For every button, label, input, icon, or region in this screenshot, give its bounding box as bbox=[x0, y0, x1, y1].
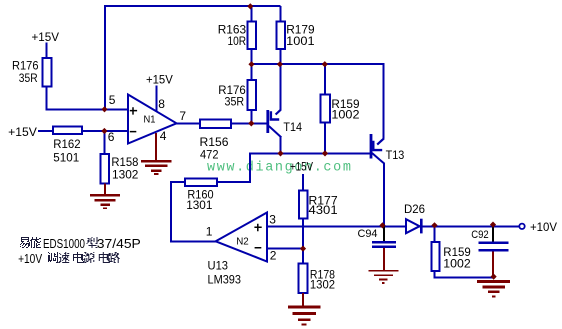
svg-text:C92: C92 bbox=[471, 229, 489, 241]
svg-text:35R: 35R bbox=[19, 71, 38, 85]
svg-text:35R: 35R bbox=[225, 94, 245, 108]
svg-text:3: 3 bbox=[269, 213, 276, 227]
svg-text:1002: 1002 bbox=[443, 256, 471, 270]
svg-text:R162: R162 bbox=[53, 137, 81, 151]
svg-text:10R: 10R bbox=[228, 34, 247, 48]
svg-text:4301: 4301 bbox=[309, 203, 338, 217]
svg-text:EDS1000: EDS1000 bbox=[43, 236, 85, 251]
svg-text:+15V: +15V bbox=[8, 125, 37, 139]
svg-text:5: 5 bbox=[109, 93, 116, 107]
svg-text:37/45P: 37/45P bbox=[97, 236, 141, 251]
svg-text:5101: 5101 bbox=[53, 151, 79, 165]
svg-text:1302: 1302 bbox=[112, 168, 139, 182]
svg-text:www.diangon.com: www.diangon.com bbox=[207, 161, 353, 176]
svg-text:+10V: +10V bbox=[18, 251, 42, 266]
svg-text:U13: U13 bbox=[208, 258, 229, 272]
svg-text:+15V: +15V bbox=[146, 73, 173, 87]
svg-text:N2: N2 bbox=[236, 236, 249, 248]
svg-text:472: 472 bbox=[200, 148, 219, 162]
svg-text:+15V: +15V bbox=[32, 30, 60, 44]
svg-text:T14: T14 bbox=[283, 120, 302, 134]
svg-text:1001: 1001 bbox=[286, 34, 315, 48]
svg-text:8: 8 bbox=[158, 97, 165, 111]
svg-text:7: 7 bbox=[179, 109, 186, 123]
svg-text:N1: N1 bbox=[144, 113, 156, 125]
svg-text:1: 1 bbox=[206, 224, 213, 238]
svg-text:+10V: +10V bbox=[530, 220, 557, 234]
svg-text:1301: 1301 bbox=[186, 198, 213, 212]
svg-text:1002: 1002 bbox=[331, 107, 359, 121]
svg-text:D26: D26 bbox=[404, 202, 425, 216]
svg-text:1302: 1302 bbox=[310, 278, 335, 292]
svg-text:+15V: +15V bbox=[290, 160, 313, 174]
svg-text:4: 4 bbox=[160, 129, 167, 143]
svg-text:T13: T13 bbox=[386, 148, 405, 162]
svg-text:6: 6 bbox=[108, 130, 115, 144]
svg-text:LM393: LM393 bbox=[208, 273, 242, 287]
svg-text:C94: C94 bbox=[358, 228, 378, 240]
svg-text:2: 2 bbox=[270, 249, 277, 263]
